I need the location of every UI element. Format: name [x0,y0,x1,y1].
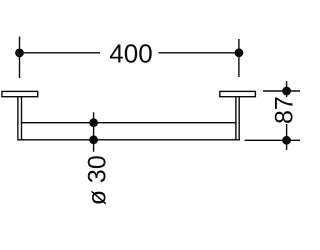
svg-text:ø 30: ø 30 [84,155,112,205]
wire right extension tick of 400 [238,39,240,77]
wire 87 bottom tick [245,139,300,141]
node dot top of 87 [282,87,291,96]
node dot bottom of diameter 30 [89,135,98,144]
right post interior (white gap through bar top line) [237,98,239,139]
left post inner line [21,97,23,140]
wire left extension tick of 400 [19,37,21,79]
right wall plate [220,91,256,96]
left wall plate [2,91,38,96]
wire 87 dimension vertical top segment [286,81,288,97]
node dot right of 400 [235,48,244,57]
wire 87 dimension vertical bottom segment [286,124,288,150]
svg-text:400: 400 [109,39,152,69]
bar rectangle (towel rail tube) [18,123,239,140]
svg-text:87: 87 [270,96,298,124]
node dot left of 400 [15,49,24,58]
node dot bottom of 87 [282,136,291,145]
node dot top of diameter 30 [89,118,98,127]
right post outer line [238,97,240,123]
right post inner line [235,97,237,140]
wire vertical line of diameter 30 dimension [93,112,95,152]
left post outer line [17,97,19,123]
wire dimension line 400 left segment [20,52,101,54]
wire 87 top tick [263,90,300,92]
wire dimension line 400 right segment [159,52,239,54]
left post interior (white gap through bar top line) [19,98,21,139]
